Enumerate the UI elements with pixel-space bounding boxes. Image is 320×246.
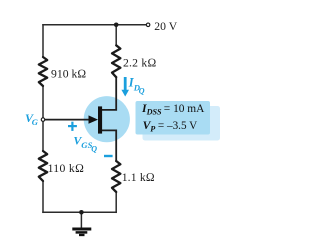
svg-text:20 V: 20 V: [154, 20, 177, 33]
svg-text:= 10 mA: = 10 mA: [164, 103, 205, 115]
svg-text:Q: Q: [139, 87, 145, 96]
svg-text:910 kΩ: 910 kΩ: [51, 68, 86, 81]
svg-text:= –3.5 V: = –3.5 V: [158, 120, 197, 132]
svg-text:Q: Q: [91, 145, 97, 154]
svg-text:1.1 kΩ: 1.1 kΩ: [122, 171, 155, 184]
svg-text:2.2 kΩ: 2.2 kΩ: [123, 56, 157, 69]
svg-text:G: G: [32, 117, 39, 127]
svg-text:110 kΩ: 110 kΩ: [48, 162, 85, 175]
svg-text:DSS: DSS: [146, 108, 162, 117]
